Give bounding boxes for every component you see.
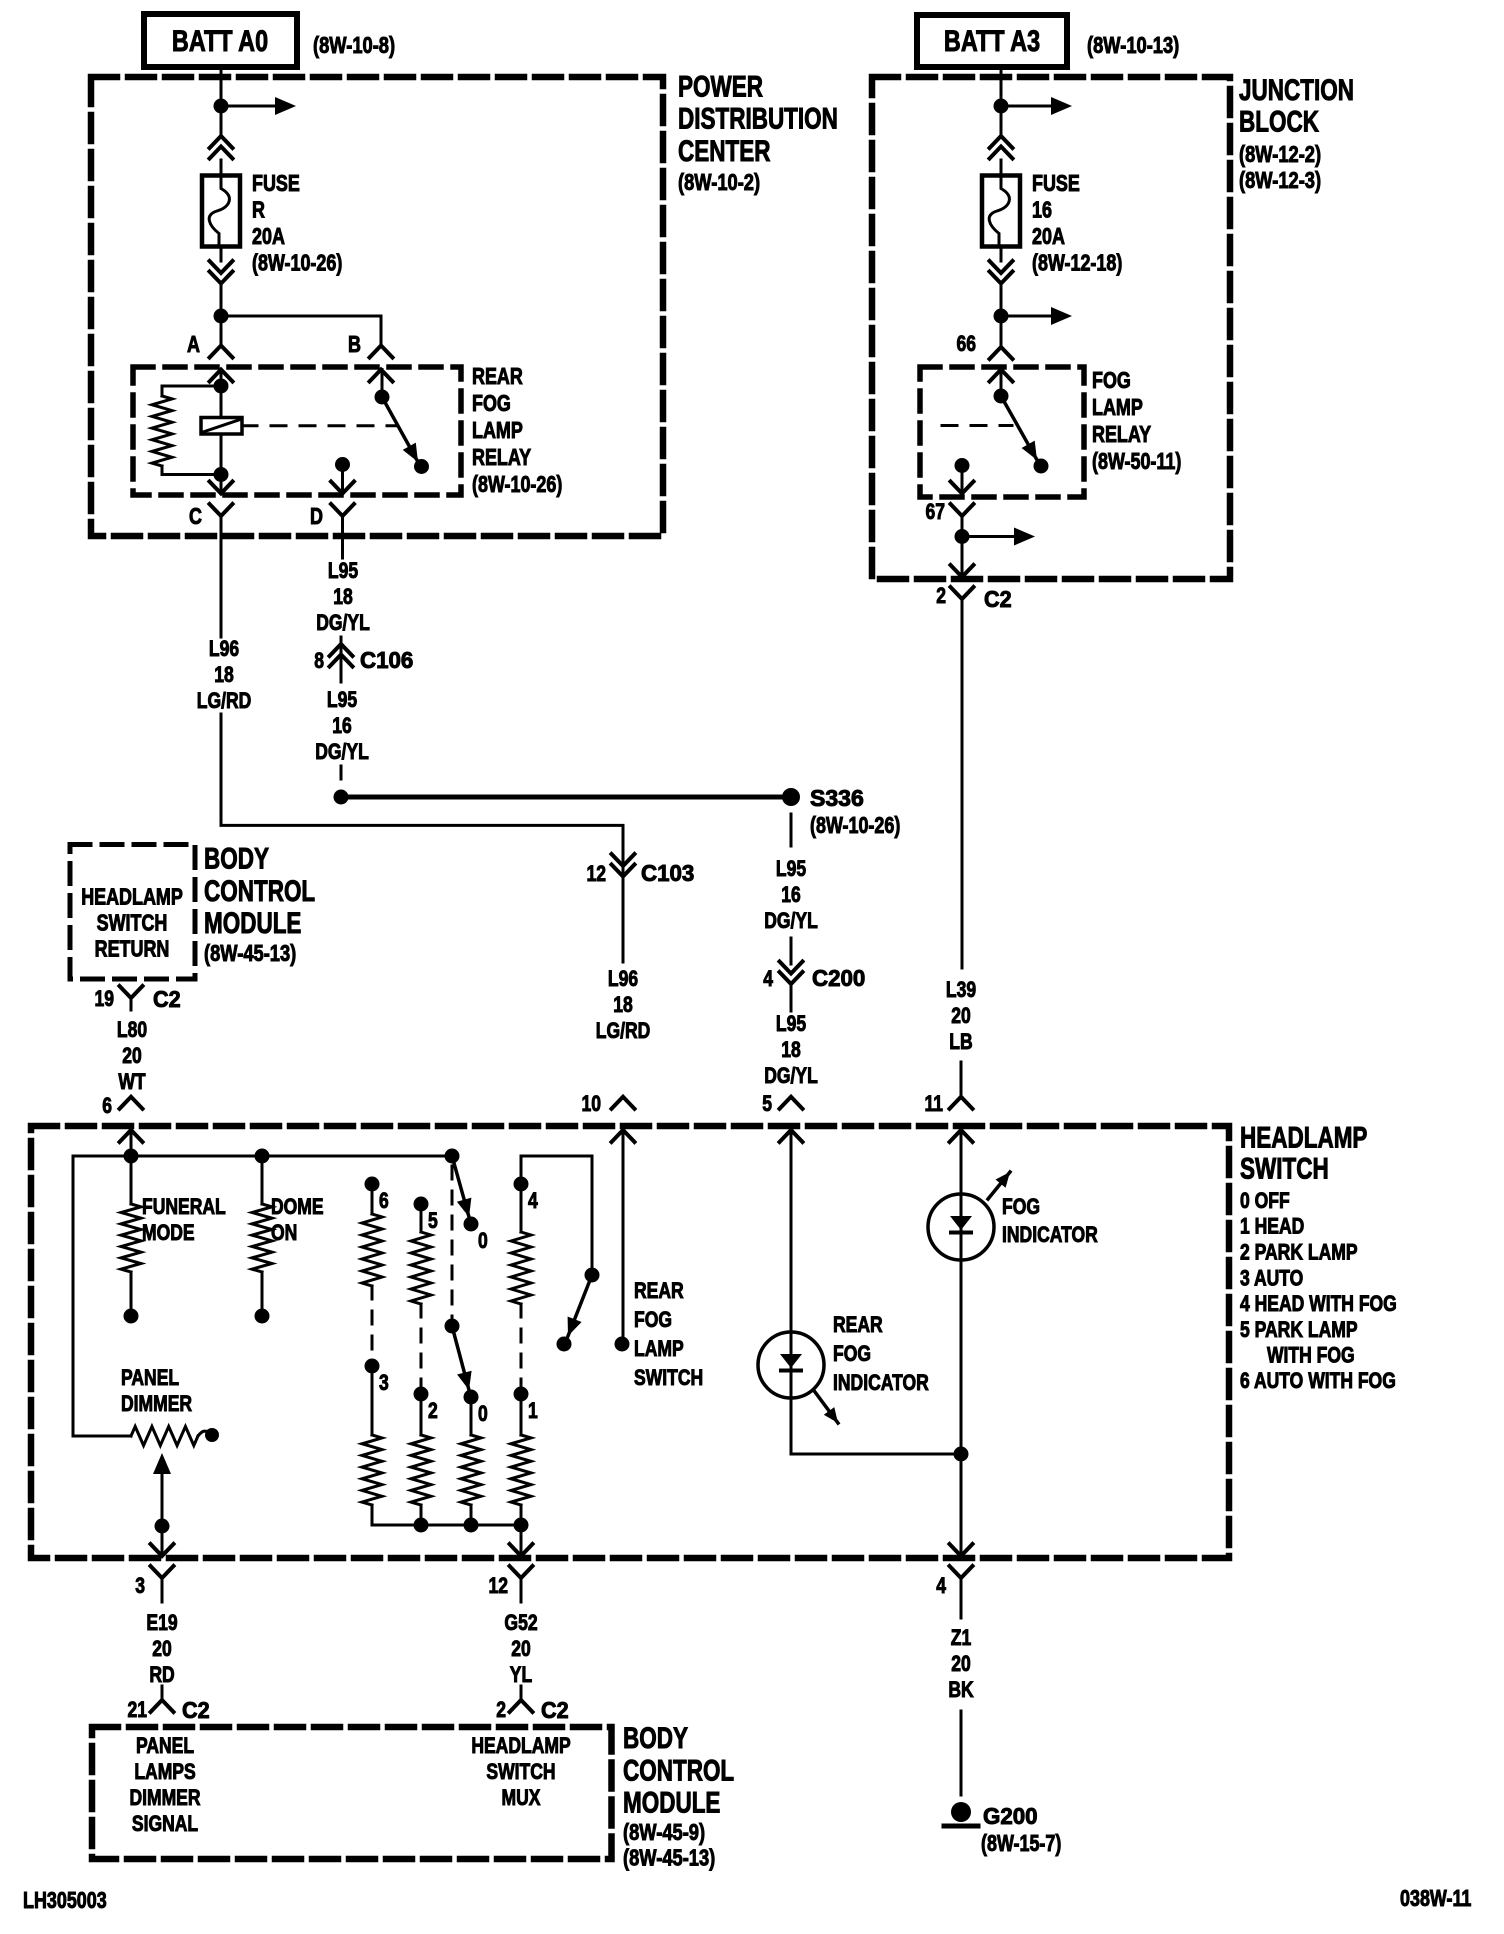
svg-text:16: 16 <box>781 883 801 908</box>
svg-text:C106: C106 <box>360 646 413 673</box>
svg-text:3: 3 <box>135 1574 145 1599</box>
svg-text:POWER: POWER <box>678 69 763 103</box>
svg-text:REAR: REAR <box>472 364 523 390</box>
svg-text:RELAY: RELAY <box>1092 422 1151 448</box>
svg-text:6: 6 <box>379 1189 389 1214</box>
column 6 contact 3 <box>365 1359 380 1374</box>
column 5 contact 2 <box>414 1387 429 1402</box>
column 4 contact 1 <box>514 1387 529 1402</box>
svg-text:BATT A0: BATT A0 <box>172 24 268 57</box>
svg-text:L39: L39 <box>946 978 976 1003</box>
svg-text:MODE: MODE <box>142 1221 195 1246</box>
wire above C200 <box>790 938 793 964</box>
svg-text:BATT A3: BATT A3 <box>944 24 1040 57</box>
svg-text:FUSE: FUSE <box>1032 171 1080 197</box>
wire L96 below C103 <box>622 890 625 962</box>
pin 6 connector halves <box>120 1097 143 1109</box>
relay coil top node <box>220 370 223 418</box>
wire L96 to corner <box>221 714 623 852</box>
bus node funeral <box>124 1149 139 1164</box>
fog indicator arrow <box>988 1172 1010 1199</box>
svg-text:LAMP: LAMP <box>634 1337 684 1362</box>
column 5 lower <box>420 1394 423 1435</box>
svg-text:C200: C200 <box>812 964 865 991</box>
svg-text:20: 20 <box>122 1044 142 1069</box>
svg-text:4: 4 <box>528 1189 538 1214</box>
svg-text:BK: BK <box>948 1678 974 1703</box>
wire Z1 lower <box>960 1711 963 1795</box>
fuse R 20A <box>202 176 240 247</box>
svg-text:1: 1 <box>528 1399 538 1424</box>
rear fog lamp switch pivot <box>585 1268 600 1283</box>
svg-text:LAMP: LAMP <box>1092 395 1143 421</box>
svg-text:DG/YL: DG/YL <box>316 611 370 636</box>
switch output bus <box>372 1524 521 1527</box>
svg-text:(8W-45-13): (8W-45-13) <box>204 941 296 967</box>
wire: fuse to node A <box>220 284 223 346</box>
svg-text:JUNCTION: JUNCTION <box>1239 73 1354 107</box>
svg-text:DIMMER: DIMMER <box>129 1786 200 1811</box>
column 6 resistor <box>371 1184 374 1214</box>
svg-text:SWITCH: SWITCH <box>97 911 168 937</box>
svg-text:YL: YL <box>510 1663 532 1688</box>
pin 5 connector halves <box>780 1097 803 1109</box>
junction node to relay contact B <box>214 309 229 324</box>
svg-text:8: 8 <box>314 649 324 674</box>
relay suppression resistor <box>162 386 221 396</box>
bus node wiper 0 <box>445 1149 460 1164</box>
pin B connector halves <box>370 346 393 358</box>
pin 66 connector halves <box>990 347 1013 359</box>
svg-text:(8W-10-13): (8W-10-13) <box>1087 33 1179 59</box>
wire L39 <box>961 612 964 968</box>
svg-text:B: B <box>348 332 361 358</box>
svg-text:HEADLAMP: HEADLAMP <box>81 885 183 911</box>
svg-text:0 OFF: 0 OFF <box>1240 1189 1290 1214</box>
panel dimmer wiper arrow <box>153 1453 171 1474</box>
svg-text:REAR: REAR <box>833 1313 883 1338</box>
REAR FOG INDICATOR led <box>790 1332 793 1398</box>
selector arm lower 0 <box>452 1326 469 1390</box>
svg-text:L95: L95 <box>328 559 358 584</box>
svg-text:PANEL: PANEL <box>136 1734 194 1759</box>
svg-text:DG/YL: DG/YL <box>764 909 818 934</box>
relay actuation link (dashed) <box>242 424 396 427</box>
svg-text:4: 4 <box>936 1574 946 1599</box>
ground G200 <box>951 1802 971 1822</box>
pin A connector halves <box>210 346 233 358</box>
svg-text:18: 18 <box>214 663 234 688</box>
svg-text:LG/RD: LG/RD <box>197 689 252 714</box>
output bus nodes <box>414 1518 429 1533</box>
relay switch throw node D <box>335 457 350 472</box>
rear fog lamp switch arm <box>568 1275 592 1336</box>
svg-text:(8W-10-26): (8W-10-26) <box>252 250 342 276</box>
svg-text:WT: WT <box>118 1070 146 1095</box>
svg-text:L80: L80 <box>117 1018 147 1043</box>
pin C female half <box>210 504 233 516</box>
splice S336 <box>782 788 800 806</box>
svg-text:1 HEAD: 1 HEAD <box>1240 1215 1304 1240</box>
svg-text:4: 4 <box>763 967 773 992</box>
svg-text:20: 20 <box>152 1637 172 1662</box>
column 5 contact <box>414 1197 429 1212</box>
svg-text:66: 66 <box>956 332 976 357</box>
fog relay actuation link (dashed) <box>942 424 1012 427</box>
pin 67 connector halves <box>951 482 974 494</box>
svg-text:RD: RD <box>149 1663 174 1688</box>
junction node + feed arrow (JB) <box>994 99 1009 114</box>
svg-text:DIMMER: DIMMER <box>121 1392 192 1417</box>
wire L96 from pin C <box>220 528 223 637</box>
fog relay switch arm <box>1000 370 1003 397</box>
svg-text:(8W-10-26): (8W-10-26) <box>472 472 562 498</box>
panel dimmer feed <box>73 1156 131 1436</box>
wiper node <box>155 1519 170 1534</box>
svg-text:S336: S336 <box>810 785 864 811</box>
svg-text:20: 20 <box>951 1004 971 1029</box>
pin 4 exit <box>950 1544 973 1556</box>
svg-text:ON: ON <box>271 1221 297 1246</box>
svg-text:CENTER: CENTER <box>678 134 770 168</box>
svg-text:FOG: FOG <box>1002 1195 1040 1220</box>
svg-text:G52: G52 <box>504 1611 537 1636</box>
svg-text:18: 18 <box>613 993 633 1018</box>
svg-text:21: 21 <box>127 1698 147 1723</box>
wire below S336 <box>790 814 793 846</box>
svg-text:LH305003: LH305003 <box>23 1888 107 1914</box>
svg-text:(8W-12-2): (8W-12-2) <box>1239 142 1321 168</box>
connector C106 <box>340 637 343 682</box>
wire E19 stub <box>161 1686 164 1700</box>
svg-text:FUSE: FUSE <box>252 171 300 197</box>
HEADLAMP SWITCH RETURN box (dashed) <box>70 845 195 980</box>
svg-text:10: 10 <box>581 1092 601 1117</box>
svg-text:LB: LB <box>949 1030 972 1055</box>
rear fog indicator arrow <box>815 1392 838 1423</box>
splice bus to S336 <box>341 795 791 800</box>
svg-text:INDICATOR: INDICATOR <box>833 1371 929 1396</box>
svg-text:67: 67 <box>925 500 945 525</box>
svg-text:SWITCH: SWITCH <box>634 1366 703 1391</box>
svg-text:R: R <box>252 197 265 223</box>
svg-text:BODY: BODY <box>204 842 269 876</box>
svg-text:6: 6 <box>102 1094 112 1119</box>
svg-text:(8W-50-11): (8W-50-11) <box>1092 449 1181 475</box>
svg-text:16: 16 <box>1032 197 1052 223</box>
svg-text:D: D <box>310 504 323 530</box>
svg-text:(8W-10-2): (8W-10-2) <box>678 170 760 196</box>
svg-text:A: A <box>187 332 200 358</box>
svg-text:E19: E19 <box>146 1611 177 1636</box>
bus node dome <box>255 1149 270 1164</box>
svg-text:(8W-15-7): (8W-15-7) <box>981 1831 1061 1857</box>
svg-text:C2: C2 <box>182 1697 210 1723</box>
connector chevrons above fuse <box>210 136 233 148</box>
wire to JB exit <box>961 537 964 578</box>
svg-text:G200: G200 <box>983 1802 1038 1829</box>
connector chevrons below fuse <box>210 261 233 273</box>
panel dimmer resistor <box>131 1427 198 1446</box>
svg-text:C2: C2 <box>984 586 1012 612</box>
funeral mode resistor <box>130 1156 133 1204</box>
wire stub above splice <box>340 766 343 779</box>
svg-text:20A: 20A <box>252 224 285 250</box>
svg-text:INDICATOR: INDICATOR <box>1002 1223 1098 1248</box>
svg-text:MUX: MUX <box>502 1786 541 1811</box>
rear fog lamp switch input <box>622 1130 625 1344</box>
svg-text:HEADLAMP: HEADLAMP <box>1240 1120 1367 1154</box>
relay switch arm B-D <box>381 370 384 398</box>
wire L95 from pin D <box>341 528 344 558</box>
svg-text:BODY: BODY <box>623 1721 688 1755</box>
svg-text:2: 2 <box>496 1698 506 1723</box>
selector dashed column <box>451 1166 454 1320</box>
svg-text:12: 12 <box>488 1574 508 1599</box>
svg-text:L96: L96 <box>209 637 239 662</box>
svg-text:4 HEAD WITH FOG: 4 HEAD WITH FOG <box>1240 1292 1397 1317</box>
svg-text:(8W-10-8): (8W-10-8) <box>313 33 395 59</box>
svg-text:FOG: FOG <box>833 1342 871 1367</box>
pin 12 exit <box>520 1525 523 1556</box>
wire: fuse 16 to node 66 <box>1000 284 1003 347</box>
column 5 resistor <box>420 1204 423 1232</box>
svg-text:20A: 20A <box>1032 224 1065 250</box>
svg-text:0: 0 <box>478 1229 488 1254</box>
svg-text:LAMPS: LAMPS <box>134 1760 195 1785</box>
JUNCTION BLOCK box (dashed) <box>872 77 1230 579</box>
pin C connector halves <box>220 475 223 494</box>
svg-text:LG/RD: LG/RD <box>596 1019 651 1044</box>
svg-text:5: 5 <box>762 1092 772 1117</box>
svg-text:16: 16 <box>332 714 352 739</box>
pin 3 connector halves <box>151 1544 174 1556</box>
switch feed bus <box>73 1155 452 1158</box>
svg-text:2: 2 <box>428 1399 438 1424</box>
svg-text:L95: L95 <box>776 1012 806 1037</box>
svg-text:Z1: Z1 <box>951 1626 971 1651</box>
HEADLAMP SWITCH box (dashed) <box>31 1126 1229 1558</box>
svg-text:(8W-12-3): (8W-12-3) <box>1239 168 1321 194</box>
svg-text:DG/YL: DG/YL <box>764 1064 818 1089</box>
svg-text:(8W-45-13): (8W-45-13) <box>623 1845 715 1871</box>
svg-text:C2: C2 <box>541 1697 569 1723</box>
svg-text:FOG: FOG <box>1092 368 1131 394</box>
svg-text:20: 20 <box>511 1637 531 1662</box>
svg-text:SWITCH: SWITCH <box>486 1760 555 1785</box>
svg-text:0: 0 <box>478 1402 488 1427</box>
svg-text:HEADLAMP: HEADLAMP <box>471 1734 570 1759</box>
svg-text:6 AUTO WITH FOG: 6 AUTO WITH FOG <box>1240 1369 1396 1394</box>
svg-text:C2: C2 <box>153 986 181 1012</box>
pin 10 connector halves <box>612 1097 635 1109</box>
svg-text:L95: L95 <box>327 688 357 713</box>
column 6 contact <box>365 1177 380 1192</box>
connector chevrons above fuse 16 <box>990 136 1013 148</box>
svg-text:18: 18 <box>781 1038 801 1063</box>
svg-text:SWITCH: SWITCH <box>1240 1151 1329 1185</box>
svg-text:MODULE: MODULE <box>623 1785 720 1819</box>
pin D female half <box>331 504 354 516</box>
relay coil bottom node <box>220 434 223 475</box>
BODY CONTROL MODULE box (dashed) <box>92 1727 612 1859</box>
connector C200 <box>780 962 803 974</box>
relay coil <box>201 418 242 435</box>
fog relay throw node <box>955 458 970 473</box>
column 6 lower <box>371 1366 374 1435</box>
column 4 feed bracket <box>521 1156 592 1275</box>
wire: BATT A0 to fuse <box>220 67 223 136</box>
connector chevrons below fuse 16 <box>990 261 1013 273</box>
svg-text:DG/YL: DG/YL <box>315 740 369 765</box>
svg-text:BLOCK: BLOCK <box>1239 104 1319 138</box>
junction node + arrow (66 above) <box>994 309 1009 324</box>
svg-text:20: 20 <box>951 1652 971 1677</box>
svg-text:C: C <box>189 504 202 530</box>
svg-text:2 PARK LAMP: 2 PARK LAMP <box>1240 1241 1358 1266</box>
FOG INDICATOR led <box>960 1194 963 1260</box>
selector arm lower pivot <box>445 1319 460 1334</box>
svg-text:DISTRIBUTION: DISTRIBUTION <box>678 102 838 136</box>
POWER DISTRIBUTION CENTER box (dashed) <box>91 77 663 536</box>
svg-text:5: 5 <box>428 1209 438 1234</box>
svg-text:CONTROL: CONTROL <box>204 874 315 908</box>
svg-text:LAMP: LAMP <box>472 418 523 444</box>
svg-text:(8W-10-26): (8W-10-26) <box>810 813 900 839</box>
battery feed box BATT A0 <box>144 14 297 67</box>
svg-text:L95: L95 <box>776 857 806 882</box>
indicator common wire <box>791 1398 961 1454</box>
battery feed box BATT A3 <box>917 15 1067 67</box>
svg-text:WITH FOG: WITH FOG <box>1267 1344 1355 1369</box>
svg-text:FUNERAL: FUNERAL <box>142 1195 226 1220</box>
fuse 16 20A <box>982 176 1020 247</box>
svg-text:3 AUTO: 3 AUTO <box>1240 1266 1303 1291</box>
selector arm upper 0 <box>452 1156 469 1217</box>
svg-text:PANEL: PANEL <box>121 1366 179 1391</box>
pin 2 C2 exit <box>951 565 974 577</box>
connector C103 <box>622 852 625 890</box>
svg-text:038W-11: 038W-11 <box>1400 1886 1471 1912</box>
column 4 resistor <box>520 1184 523 1232</box>
svg-text:CONTROL: CONTROL <box>623 1753 734 1787</box>
junction node + arrow (67) <box>955 529 970 544</box>
wire G52 stub <box>520 1686 523 1700</box>
svg-text:FOG: FOG <box>472 391 511 417</box>
svg-text:MODULE: MODULE <box>204 906 301 940</box>
svg-text:DOME: DOME <box>271 1195 324 1220</box>
REAR FOG LAMP RELAY box (dashed) <box>133 367 461 495</box>
svg-text:REAR: REAR <box>634 1279 684 1304</box>
svg-text:L96: L96 <box>608 967 638 992</box>
column 0 lower <box>470 1397 473 1435</box>
svg-text:SIGNAL: SIGNAL <box>132 1812 198 1837</box>
splice node S336 branch <box>334 790 349 805</box>
svg-text:2: 2 <box>936 584 946 609</box>
FOG LAMP RELAY box (dashed) <box>920 367 1084 497</box>
svg-text:C103: C103 <box>641 859 694 886</box>
svg-text:12: 12 <box>586 862 606 887</box>
wire: BATT A3 to fuse <box>1000 67 1003 136</box>
column 4 lower <box>520 1394 523 1435</box>
svg-text:5 PARK LAMP: 5 PARK LAMP <box>1240 1318 1358 1343</box>
svg-text:11: 11 <box>924 1092 943 1117</box>
svg-text:3: 3 <box>379 1371 389 1396</box>
svg-text:(8W-45-9): (8W-45-9) <box>623 1820 705 1846</box>
dome on resistor <box>261 1156 264 1204</box>
svg-text:18: 18 <box>333 585 353 610</box>
svg-text:19: 19 <box>94 987 114 1012</box>
svg-text:(8W-12-18): (8W-12-18) <box>1032 250 1122 276</box>
indicator junction <box>954 1447 969 1462</box>
pin 11 connector halves <box>960 1062 963 1097</box>
svg-text:FOG: FOG <box>634 1308 672 1333</box>
svg-text:RELAY: RELAY <box>472 445 531 471</box>
column 4 contact <box>514 1177 529 1192</box>
junction node + feed arrow <box>214 99 229 114</box>
svg-text:RETURN: RETURN <box>95 937 170 963</box>
